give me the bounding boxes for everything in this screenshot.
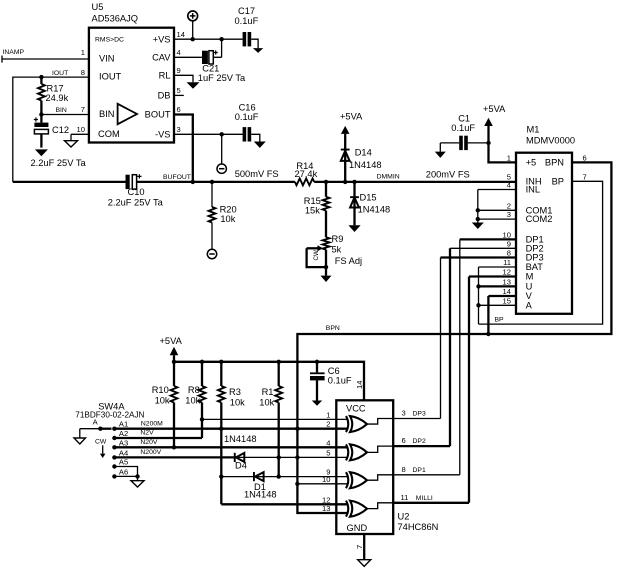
svg-text:2.2uF 25V Ta: 2.2uF 25V Ta [31,158,87,168]
svg-text:15: 15 [503,296,511,305]
svg-text:9: 9 [177,66,181,75]
svg-text:-VS: -VS [155,130,171,140]
svg-text:MILLI: MILLI [416,495,433,502]
svg-text:AD536AJQ: AD536AJQ [92,14,139,24]
svg-text:A2: A2 [119,429,128,438]
svg-text:4: 4 [326,438,330,447]
svg-text:COM2: COM2 [526,214,553,224]
svg-text:COM: COM [98,129,120,139]
svg-text:1: 1 [326,410,330,419]
svg-text:8: 8 [507,249,511,258]
svg-text:A: A [526,300,533,310]
svg-text:GND: GND [347,523,368,533]
svg-text:9: 9 [507,239,511,248]
svg-text:U2: U2 [398,512,410,522]
svg-text:6: 6 [402,436,406,445]
svg-text:C17: C17 [238,6,255,16]
svg-text:N20V: N20V [140,439,157,446]
svg-text:N2V: N2V [140,430,154,437]
svg-text:0.1uF: 0.1uF [451,123,475,133]
svg-text:13: 13 [503,277,511,286]
svg-text:5: 5 [177,86,181,95]
svg-text:DP3: DP3 [526,253,544,263]
svg-text:IOUT: IOUT [52,70,68,77]
svg-text:200mV FS: 200mV FS [426,170,470,180]
svg-text:A5: A5 [119,458,128,467]
svg-text:71BDF30-02-2AJN: 71BDF30-02-2AJN [75,411,144,420]
svg-text:15k: 15k [305,206,320,216]
svg-text:2: 2 [326,420,330,429]
svg-text:1N4148: 1N4148 [358,205,391,215]
svg-text:2: 2 [507,201,511,210]
svg-text:C10: C10 [128,187,145,197]
svg-text:A1: A1 [119,420,128,429]
svg-text:BUFOUT: BUFOUT [163,174,191,181]
svg-text:+5VA: +5VA [340,112,363,122]
svg-text:D14: D14 [355,148,372,158]
svg-text:R20: R20 [220,204,237,214]
svg-text:500mV FS: 500mV FS [235,169,279,179]
svg-text:DB: DB [158,91,171,101]
svg-text:5k: 5k [332,245,342,255]
svg-text:10k: 10k [155,396,170,406]
svg-text:CW: CW [313,250,320,260]
svg-text:14: 14 [177,30,185,39]
svg-text:A4: A4 [119,448,128,457]
svg-text:0.1uF: 0.1uF [328,376,352,386]
svg-text:IOUT: IOUT [99,72,122,82]
svg-text:10k: 10k [259,398,274,408]
svg-text:8: 8 [81,68,85,77]
svg-text:VIN: VIN [99,54,115,64]
svg-text:6: 6 [177,105,181,114]
svg-text:D4: D4 [235,461,247,471]
svg-text:BOUT: BOUT [145,110,171,120]
svg-text:10: 10 [503,230,511,239]
svg-text:10: 10 [77,125,85,134]
svg-text:0.1uF: 0.1uF [235,16,259,26]
svg-text:RMS>DC: RMS>DC [95,37,124,44]
svg-text:6: 6 [583,153,587,162]
svg-text:1N4148: 1N4148 [224,434,257,444]
svg-text:INAMP: INAMP [3,49,25,56]
svg-text:27.4k: 27.4k [295,169,318,179]
svg-text:1: 1 [507,153,511,162]
svg-text:R9: R9 [332,234,344,244]
svg-text:DP1: DP1 [413,467,426,474]
svg-text:R8: R8 [188,385,200,395]
svg-text:A6: A6 [119,467,128,476]
svg-text:10k: 10k [185,396,200,406]
svg-text:14: 14 [503,287,511,296]
svg-text:1uF 25V Ta: 1uF 25V Ta [198,73,246,83]
svg-text:10k: 10k [220,214,235,224]
svg-text:R3: R3 [229,387,241,397]
svg-text:7: 7 [355,545,364,549]
svg-text:N200M: N200M [141,420,163,427]
svg-text:A3: A3 [119,438,128,447]
svg-text:8: 8 [402,465,406,474]
svg-text:4: 4 [177,48,181,57]
svg-text:CAV: CAV [152,53,171,63]
svg-text:C12: C12 [52,125,69,135]
svg-text:D15: D15 [360,192,377,202]
svg-text:C21: C21 [202,64,219,74]
svg-text:1N4148: 1N4148 [244,490,277,500]
svg-text:M: M [526,272,534,282]
svg-text:11: 11 [503,258,511,267]
svg-text:BIN: BIN [56,107,67,114]
svg-text:DP3: DP3 [413,410,426,417]
svg-text:BPN: BPN [326,325,340,332]
svg-text:R15: R15 [304,196,321,206]
svg-text:CW: CW [95,439,107,446]
svg-text:14: 14 [355,381,364,389]
svg-text:3: 3 [402,408,406,417]
svg-text:74HC86N: 74HC86N [398,522,439,532]
svg-text:U: U [526,281,533,291]
svg-text:+5VA: +5VA [483,104,506,114]
svg-text:BP: BP [552,176,564,186]
svg-text:3: 3 [507,210,511,219]
svg-text:INL: INL [526,185,540,195]
svg-text:7: 7 [583,172,587,181]
svg-text:13: 13 [322,504,330,513]
svg-text:10: 10 [322,475,330,484]
svg-text:1: 1 [81,48,85,57]
svg-text:M1: M1 [527,125,540,135]
svg-text:DP2: DP2 [413,438,426,445]
svg-text:BP: BP [495,317,505,324]
svg-text:11: 11 [401,493,409,502]
svg-text:0.1uF: 0.1uF [235,112,259,122]
svg-text:+5VA: +5VA [160,336,183,346]
svg-text:N200V: N200V [140,449,161,456]
svg-text:RL: RL [159,71,171,81]
svg-text:7: 7 [81,105,85,114]
svg-text:FS Adj: FS Adj [335,256,362,266]
svg-text:1N4148: 1N4148 [349,160,382,170]
svg-text:2.2uF 25V Ta: 2.2uF 25V Ta [108,197,164,207]
svg-text:BIN: BIN [99,109,115,119]
svg-text:+VS: +VS [153,34,171,44]
svg-text:C16: C16 [239,103,256,113]
svg-text:5: 5 [326,448,330,457]
svg-text:12: 12 [322,495,330,504]
svg-text:U5: U5 [92,2,104,12]
svg-text:VCC: VCC [346,404,366,414]
svg-text:4: 4 [507,181,511,190]
svg-text:R1: R1 [262,387,274,397]
svg-text:+5: +5 [526,157,537,167]
svg-text:10k: 10k [230,398,245,408]
svg-text:24.9k: 24.9k [46,93,69,103]
svg-text:R10: R10 [152,385,169,395]
svg-text:BPN: BPN [545,157,564,167]
svg-text:12: 12 [503,268,511,277]
svg-text:3: 3 [177,125,181,134]
svg-text:DMMIN: DMMIN [377,174,400,181]
svg-text:C6: C6 [328,366,340,376]
svg-text:MDMV0000: MDMV0000 [526,136,575,146]
svg-text:BAT: BAT [526,262,544,272]
